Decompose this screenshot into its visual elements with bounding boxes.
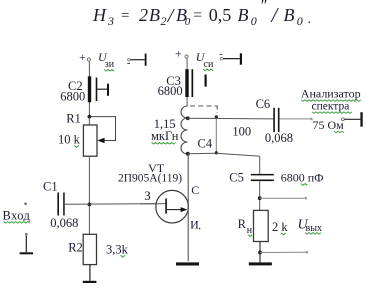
resistor R1 (potentiometer) (58, 112, 116, 157)
node coil bottom (186, 152, 190, 156)
svg-text:Вход: Вход (3, 208, 31, 222)
wire C3 to coil (186, 97, 188, 107)
svg-text:мкГн: мкГн (151, 129, 179, 143)
wire R1 to gate node (88, 156, 90, 234)
wire C2 to R1 (88, 102, 90, 125)
svg-text:R2: R2 (68, 241, 83, 255)
capacitor C2 (60, 76, 109, 103)
svg-text:И: И (190, 218, 199, 232)
svg-text:=: = (193, 7, 202, 24)
wire drain-source vertical (187, 154, 189, 261)
svg-text:6800: 6800 (60, 89, 85, 103)
label Uvyh (298, 218, 322, 235)
wire C1 to transistor gate (65, 203, 166, 206)
label analyzer spectra (301, 87, 361, 133)
svg-text:-: - (219, 48, 223, 60)
svg-text:2 k: 2 k (272, 220, 288, 234)
svg-text:10 k: 10 k (58, 133, 81, 147)
svg-text:=: = (121, 8, 129, 24)
capacitor C1 (43, 180, 78, 230)
ground under transistor (176, 262, 199, 265)
svg-text:+: + (79, 50, 86, 64)
formula H3 = 2B2/B0 = 0,5B0''/B0 (92, 0, 311, 28)
svg-text:″: ″ (260, 0, 267, 15)
transistor channel arrow (167, 207, 188, 212)
svg-text:+: + (175, 47, 182, 61)
svg-text:B: B (149, 5, 160, 25)
wire R2 to ground (89, 265, 91, 281)
svg-text:75 Ом: 75 Ом (313, 118, 345, 132)
capacitor C5 (229, 170, 323, 185)
ground under R2 (83, 281, 97, 283)
svg-text:.: . (308, 12, 312, 27)
ground under Rn (249, 262, 272, 265)
svg-text:3: 3 (107, 14, 114, 28)
label I source (190, 218, 200, 232)
terminal + of U_zi (79, 50, 91, 64)
wire to Uvyh upper terminal (260, 197, 308, 200)
node coil tap (186, 116, 190, 120)
svg-text:0,068: 0,068 (265, 131, 293, 145)
svg-text:0: 0 (297, 14, 303, 28)
label VT type (118, 161, 182, 185)
svg-text:H: H (92, 5, 107, 25)
svg-text:2: 2 (139, 5, 148, 25)
node output upper (258, 196, 262, 200)
svg-text:C4: C4 (198, 137, 213, 151)
svg-text:3,3k: 3,3k (106, 243, 129, 257)
svg-text:R1: R1 (66, 112, 81, 126)
svg-text:2П905А(119): 2П905А(119) (118, 173, 182, 185)
svg-text:зи: зи (105, 59, 115, 70)
input terminal lower (20, 233, 33, 254)
resistor Rn (238, 210, 289, 241)
svg-text:вых: вых (306, 223, 322, 234)
svg-text:R: R (238, 217, 247, 231)
svg-text:0,068: 0,068 (50, 216, 78, 230)
svg-text:Анализатор: Анализатор (301, 87, 361, 101)
node C4 bottom (215, 151, 218, 154)
wire C5 to Rn (259, 181, 261, 210)
transistor VT circle (156, 190, 189, 223)
svg-text:0: 0 (251, 14, 257, 28)
svg-text:/: / (271, 3, 280, 27)
wire bottom rail coil to C5 branch (188, 153, 260, 174)
svg-text:C: C (191, 183, 199, 197)
svg-text:C1: C1 (43, 180, 58, 194)
label U_zi (98, 50, 115, 71)
svg-text:2: 2 (161, 14, 167, 28)
svg-text:B: B (238, 5, 249, 25)
capacitor C4 (198, 117, 217, 153)
svg-text:0,5: 0,5 (209, 5, 232, 25)
svg-text:си: си (204, 59, 214, 70)
capacitor C3 (158, 69, 207, 98)
dashed shield of coil (190, 106, 217, 114)
node gate junction (88, 203, 92, 207)
svg-text:/: / (167, 5, 176, 27)
terminal + of U_si (175, 47, 188, 61)
terminal - of U_zi (127, 54, 147, 70)
node output lower (258, 251, 262, 255)
terminal - of U_si (219, 48, 242, 65)
node C4 top (215, 115, 218, 118)
transistor gate bar (165, 198, 167, 213)
svg-text:н: н (247, 225, 253, 236)
svg-text:спектра: спектра (312, 101, 350, 113)
svg-text:6800 пФ: 6800 пФ (281, 170, 324, 184)
svg-text:100: 100 (232, 125, 251, 139)
node R1 top junction (88, 115, 92, 119)
wire + to C3 (186, 58, 188, 69)
svg-text:6800: 6800 (158, 84, 183, 98)
svg-text:З: З (144, 188, 151, 203)
svg-text:C6: C6 (256, 97, 271, 111)
label U_si (196, 50, 214, 71)
analyzer terminal (342, 112, 363, 127)
resistor R2 (68, 234, 128, 264)
svg-text:C5: C5 (229, 170, 244, 184)
label Vhod (3, 208, 31, 223)
wire Rn to ground (259, 242, 261, 263)
input terminal upper (24, 202, 27, 205)
wire top rail coil to C6 (188, 117, 274, 120)
inductor L 1,15 mkGn (151, 106, 188, 154)
capacitor C6 (256, 97, 293, 145)
svg-text:0: 0 (185, 16, 191, 28)
wire to Uvyh lower terminal (260, 251, 308, 254)
wire gate into transistor (140, 203, 166, 205)
wire from + terminal down to C2 (88, 61, 90, 76)
svg-text:B: B (284, 5, 295, 25)
wire C6 to analyzer terminal (280, 118, 313, 121)
